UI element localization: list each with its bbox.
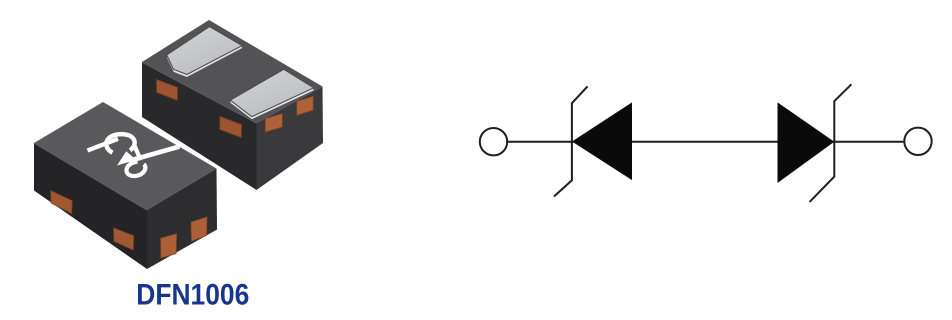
terminal circle left <box>480 128 507 155</box>
P2 front face <box>142 62 257 190</box>
P2 silver pad B <box>230 69 314 119</box>
P1 copper pad front-right <box>114 228 134 250</box>
P1 TS logo <box>88 134 180 176</box>
P2 silver pad A (with chamfer) <box>167 27 242 78</box>
svg-text:DFN1006: DFN1006 <box>136 279 249 312</box>
zener diode D2 cathode bar <box>810 84 852 202</box>
zener diode D1 triangle <box>573 103 632 179</box>
zener diode D2 triangle <box>778 103 833 182</box>
logo hook1 loop <box>106 134 134 152</box>
package P2 (DFN1006 bottom view) <box>142 20 323 190</box>
P1 crease highlight <box>34 143 147 210</box>
P2 top face <box>142 20 323 123</box>
P1 copper pad right-face-right <box>191 217 207 241</box>
P2 copper pad right-face-right <box>297 96 314 115</box>
P1 copper pad right-face-left <box>161 234 177 258</box>
P2 copper pad right-face-left <box>265 114 282 133</box>
zener diode D1 cathode bar <box>554 86 588 196</box>
P1 top face <box>34 102 217 210</box>
logo hook2 bowl <box>126 162 145 177</box>
P2 right face <box>257 87 324 191</box>
logo crossbar <box>129 147 180 162</box>
P1 front face <box>34 143 147 269</box>
P1 copper pad front-left <box>51 191 72 214</box>
logo hook2 stem <box>134 145 141 161</box>
P2 copper pad front-left <box>157 80 178 101</box>
logo arrowhead <box>117 151 136 165</box>
terminal circle right <box>904 128 931 155</box>
P1 right face <box>147 169 217 270</box>
P2 crease highlight <box>142 62 257 123</box>
logo bar left <box>88 139 119 151</box>
package P1 (DFN1006 top view) <box>34 102 217 269</box>
schematic: bidirectional TVS <box>480 84 904 202</box>
wire <box>507 141 904 143</box>
P2 copper pad front-right <box>220 117 242 138</box>
